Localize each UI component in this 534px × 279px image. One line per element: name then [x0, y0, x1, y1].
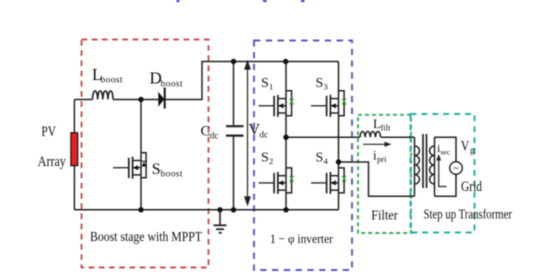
svg-text:S: S	[261, 151, 269, 166]
svg-text:filt: filt	[381, 123, 392, 133]
svg-text:S: S	[316, 151, 324, 166]
svg-text:Step up Transformer: Step up Transformer	[424, 208, 513, 223]
svg-text:V: V	[461, 139, 470, 155]
svg-text:dc: dc	[210, 131, 219, 141]
svg-text:C: C	[201, 124, 211, 140]
svg-text:S: S	[316, 76, 324, 91]
svg-text:g: g	[470, 145, 475, 155]
svg-text:PV: PV	[41, 124, 56, 140]
svg-text:1 − φ inverter: 1 − φ inverter	[270, 231, 334, 246]
svg-text:~: ~	[453, 164, 459, 175]
svg-text:pri: pri	[377, 154, 387, 164]
svg-text:Array: Array	[38, 154, 66, 170]
svg-text:sec: sec	[441, 148, 451, 157]
svg-text:dc: dc	[260, 130, 269, 140]
svg-text:1: 1	[269, 82, 273, 92]
svg-text:boost: boost	[161, 80, 183, 90]
svg-text:3: 3	[324, 82, 328, 92]
svg-text:2: 2	[269, 156, 273, 166]
svg-text:boost: boost	[161, 170, 183, 180]
svg-text:S: S	[152, 161, 161, 178]
svg-text:boost: boost	[101, 76, 123, 86]
svg-text:Grid: Grid	[461, 179, 483, 195]
svg-text:Boost stage with MPPT: Boost stage with MPPT	[90, 229, 203, 244]
svg-text:Filter: Filter	[371, 209, 398, 224]
svg-text:S: S	[261, 76, 269, 91]
